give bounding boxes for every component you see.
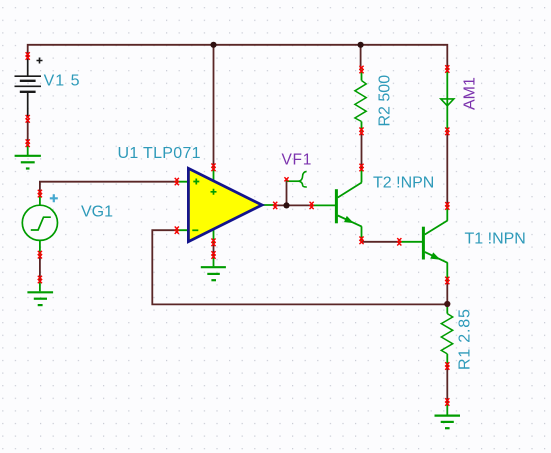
wire T2 emitter to T1 base — [362, 240, 400, 242]
pin marker U1 non-inverting input — [175, 178, 179, 185]
pin marker T1 emitter — [445, 277, 449, 285]
pin marker AM1 top — [445, 65, 449, 73]
pin marker U1 V- supply — [211, 239, 215, 247]
pin marker ground below V1 — [26, 139, 30, 147]
op-amp U1 triangle — [188, 168, 262, 241]
VF1 probe hook — [287, 171, 307, 187]
junction node at op-amp supply on top rail — [210, 42, 216, 48]
wire T1 emitter to bottom node — [446, 281, 448, 305]
wire R1 bottom to ground — [446, 366, 448, 402]
pin marker R2 top — [359, 66, 363, 74]
svg-text:AM1: AM1 — [462, 77, 479, 110]
op-amp plus mark (non-inverting input) — [193, 179, 199, 185]
resistor R1 — [441, 304, 452, 366]
pin marker VG1 bottom — [38, 251, 42, 259]
pin marker T1 base — [397, 238, 401, 245]
junction node at bottom rail / R1 — [444, 301, 450, 307]
ground below battery V1 — [15, 143, 41, 168]
label V1 5 — [44, 72, 81, 89]
label R2 500 (rotated) — [377, 75, 394, 127]
ground below R1 — [435, 402, 461, 428]
label U1 TLP071 — [118, 145, 201, 162]
wire R2 bottom to T2 collector — [361, 131, 363, 167]
VG1 pins — [39, 194, 41, 255]
pin marker R1 bottom — [445, 362, 449, 370]
ground below VG1 — [27, 280, 53, 306]
pin marker U1 output — [273, 202, 277, 209]
pin marker T2 base — [310, 202, 314, 209]
op-amp minus mark (inverting input) — [192, 229, 198, 231]
pin marker T2 collector — [359, 164, 363, 172]
pin marker V1 top — [26, 52, 30, 60]
wire VG1 top to op-amp non-inverting input — [40, 182, 177, 194]
label VG1 — [81, 203, 113, 220]
wire feedback from inverting input to bottom rail — [152, 230, 447, 304]
svg-text:VG1: VG1 — [81, 203, 113, 220]
ground below op-amp — [201, 255, 226, 280]
svg-text:U1 TLP071: U1 TLP071 — [118, 145, 201, 162]
label T2 !NPN — [373, 174, 434, 191]
svg-text:V1 5: V1 5 — [44, 72, 81, 89]
pin marker VG1 top — [38, 190, 42, 198]
VG1 waveform — [31, 217, 51, 230]
transistor T1 — [399, 206, 447, 281]
voltage generator VG1 circle — [22, 205, 57, 240]
wire AM1 bottom to T1 collector — [446, 131, 448, 206]
label VF1 — [282, 152, 313, 169]
VG1 plus mark — [50, 194, 58, 202]
pin marker U1 V+ supply — [211, 164, 215, 172]
svg-text:R1 2.85: R1 2.85 — [457, 308, 474, 370]
pin marker ground below VG1 — [38, 276, 42, 284]
battery V1 plus mark — [37, 58, 43, 64]
pin marker T2 emitter — [359, 237, 363, 245]
battery V1 leads (black) — [27, 58, 29, 119]
resistor R2 — [355, 70, 366, 132]
wire battery bottom to ground — [27, 119, 29, 143]
wire op-amp V+ supply from top rail — [213, 45, 215, 168]
ammeter AM1 — [441, 69, 454, 131]
op-amp U1 input/output/supply pins (green) — [177, 167, 275, 243]
label R1 2.85 (rotated) — [457, 308, 474, 370]
svg-text:T2 !NPN: T2 !NPN — [373, 174, 434, 191]
wire op-amp V- pin to ground — [213, 244, 215, 256]
wire VF1 probe riser — [286, 180, 288, 206]
pin marker V1 bottom — [26, 115, 30, 123]
svg-text:T1 !NPN: T1 !NPN — [465, 230, 526, 247]
junction node at op-amp output / VF1 — [283, 202, 289, 208]
pin marker U1 inverting input — [175, 227, 179, 234]
pin marker VF1 probe — [284, 177, 288, 181]
pin marker AM1 bottom — [445, 128, 449, 136]
wire top rail from V1 to AM1 corner — [28, 45, 448, 69]
pin marker ground below U1 — [211, 251, 215, 259]
battery V1 plates — [15, 76, 42, 92]
junction node at R2 on top rail — [358, 42, 364, 48]
wire VG1 bottom to ground — [39, 255, 41, 280]
wire R2 top from rail — [360, 45, 362, 70]
svg-text:VF1: VF1 — [282, 152, 313, 169]
op-amp plus mark (V+ supply) — [211, 189, 217, 195]
svg-text:R2 500: R2 500 — [377, 75, 394, 127]
label T1 !NPN — [465, 230, 526, 247]
pin marker T1 collector — [445, 202, 449, 210]
wire op-amp output to T2 base — [275, 204, 311, 206]
transistor T2 — [312, 168, 362, 241]
pin marker R2 bottom — [359, 128, 363, 136]
label AM1 (rotated) — [462, 77, 479, 110]
pin marker ground below R1 — [445, 398, 449, 406]
